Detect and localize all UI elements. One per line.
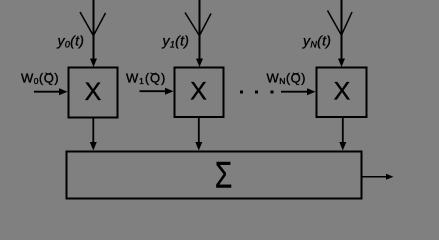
- weight arrow W1 into box M2: [140, 90, 168, 92]
- svg-text:Σ: Σ: [215, 154, 232, 196]
- svg-text:X: X: [85, 78, 102, 106]
- weight arrow WN into box M3: [281, 91, 309, 93]
- multiplier box M3: [317, 68, 367, 118]
- breve over Q of W0: [45, 73, 51, 74]
- svg-text:X: X: [334, 78, 351, 106]
- svg-text:y0(t): y0(t): [57, 33, 85, 50]
- svg-text:WN(Q): WN(Q): [267, 71, 306, 87]
- svg-text:y1(t): y1(t): [162, 33, 190, 50]
- wire M3 to summer: [342, 118, 344, 143]
- svg-text:W1(Q): W1(Q): [126, 71, 166, 87]
- weight arrow W0 into box M1: [34, 91, 61, 93]
- multiplier box M2: [175, 68, 224, 118]
- svg-text:X: X: [190, 78, 207, 106]
- arrowhead antenna 2 into box M2: [196, 59, 203, 68]
- wire M2 to summer: [198, 118, 200, 143]
- arrowhead antenna 3 into box M3: [338, 59, 345, 68]
- antenna 3: [328, 0, 353, 60]
- wire M1 to summer: [92, 119, 94, 144]
- breve over Q of W1: [151, 73, 157, 74]
- summer box U-sum: [67, 152, 362, 199]
- antenna 1: [80, 0, 106, 60]
- breve over Q of WN: [293, 73, 299, 74]
- arrowhead antenna 1 into box M1: [90, 59, 97, 68]
- ellipsis dots between M2 and M3: [240, 91, 243, 94]
- output arrow: [362, 176, 389, 178]
- svg-text:yN(t): yN(t): [302, 33, 331, 50]
- multiplier box M1: [69, 68, 118, 118]
- antenna 2: [185, 0, 211, 60]
- svg-text:W0(Q): W0(Q): [21, 71, 59, 87]
- sigma label: [215, 154, 232, 196]
